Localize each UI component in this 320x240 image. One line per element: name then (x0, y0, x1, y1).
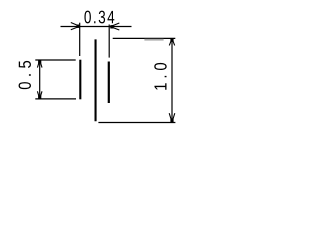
dimension text 0.5 (rotated) (19, 61, 31, 89)
extension line top of 0.5 dimension (35, 59, 75, 61)
extension line bottom of 1.0 dimension (98, 122, 175, 124)
extension line left of 0.34 dimension (79, 23, 81, 56)
arrowhead up (right dimension) (169, 39, 174, 46)
arrowhead right (points left at right extension line) (110, 23, 119, 30)
electrode plate A (left, height 0.5) (79, 60, 81, 100)
arrowhead down (left dimension) (37, 91, 42, 98)
extension line right of 0.34 dimension (108, 25, 110, 58)
dimension text 0.34 (84, 11, 114, 24)
electrode plate C (right) (108, 62, 110, 104)
dimension line for 0.5 (vertical, left) (39, 60, 41, 99)
extension line bottom of 0.5 dimension (35, 98, 76, 100)
electrode plate B (center, height 1.0) (95, 39, 97, 121)
dimension line for 1.0 (vertical, right) (171, 39, 173, 123)
arrowhead left (points right at left extension line) (71, 23, 80, 30)
dimension text 1.0 (rotated) (154, 63, 166, 90)
arrowhead up (left dimension) (37, 60, 42, 67)
dimension line for 0.34 (horizontal) (61, 26, 132, 28)
arrowhead down (right dimension) (169, 113, 175, 122)
grey highlight segment on top extension line (144, 39, 163, 41)
extension line top of 1.0 dimension (113, 37, 176, 39)
